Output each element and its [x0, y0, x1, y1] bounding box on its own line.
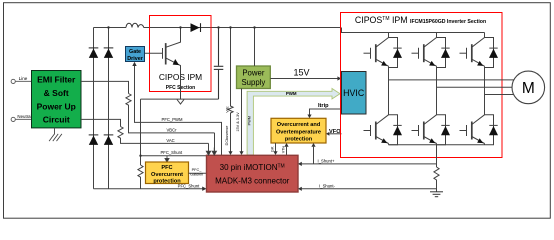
wire emitter rail drop to shunt [436, 145, 438, 167]
wire phase verticals [389, 68, 485, 115]
svg-text:PWM: PWM [247, 116, 251, 125]
terminal Neutral [11, 114, 32, 122]
resistor R4 inverter shunt [434, 167, 439, 192]
wire Ishunt sense up to protection [311, 143, 315, 164]
block HVIC [342, 72, 367, 115]
wire DC+ top rail left section [94, 27, 341, 29]
svg-text:GK: GK [270, 146, 274, 152]
resistor R1 divider A upper [126, 94, 215, 133]
svg-text:Driver: Driver [127, 56, 143, 62]
arrow VBCr into connector [212, 148, 216, 156]
wire 15V to HVIC [270, 67, 341, 80]
svg-text:Power: Power [242, 69, 265, 78]
arrow into gate driver [132, 62, 136, 66]
wire bridge leg A [93, 28, 95, 189]
wire collector stubs top row [389, 33, 485, 38]
svg-text:Itrip: Itrip [318, 103, 329, 109]
svg-text:30 pin iMOTIONTM: 30 pin iMOTIONTM [220, 163, 285, 172]
svg-text:15V: 15V [293, 67, 309, 77]
block Gate Driver [126, 47, 145, 62]
node capacitor top junction [217, 26, 219, 28]
block Overcurrent and Overtemperature protection [271, 118, 326, 143]
block Power Supply [237, 66, 271, 89]
red outline CIPOS IPM inverter section box [341, 13, 503, 158]
svg-text:Supply: Supply [241, 78, 265, 87]
svg-text:VBCr: VBCr [166, 128, 177, 133]
svg-text:Line: Line [19, 76, 28, 81]
svg-text:EMI Filter: EMI Filter [37, 75, 76, 85]
svg-text:VFO: VFO [329, 129, 341, 135]
wire GK protection to connector [270, 143, 277, 155]
wire PFC gatekill to connector [189, 172, 207, 174]
svg-text:protection: protection [285, 137, 313, 143]
wire rail to power supply [254, 28, 256, 67]
resistor R3 PFC shunt [138, 165, 143, 189]
wire Itrip from HVIC to protection [307, 103, 341, 118]
diode D2 bridge top right [104, 48, 114, 58]
svg-text:Gatekill: Gatekill [190, 173, 203, 177]
arrow into connector left [202, 187, 206, 191]
transistor Q3 inverter top phase V [412, 38, 451, 68]
svg-text:PFC: PFC [161, 165, 172, 171]
block 30 pin iMOTION MADK-M3 connector [207, 155, 299, 192]
ground arrow below PFC emitter [177, 100, 184, 105]
transistor Q4 inverter top phase W [460, 38, 499, 68]
arrow VAC into connector [206, 148, 210, 156]
wire phase V to motor [437, 86, 517, 88]
wire bridge leg B [108, 28, 110, 189]
wire I_Shunt+ from shunt to connector [298, 159, 437, 166]
block PFC Overcurrent protection [146, 162, 189, 184]
svg-text:Power Up: Power Up [37, 101, 76, 111]
svg-text:PFC_PWM: PFC_PWM [162, 117, 183, 122]
diode D3 bridge bottom left [89, 135, 99, 145]
block EMI Filter & Soft Power Up Circuit [32, 71, 82, 128]
wire phase U to motor [389, 79, 517, 81]
svg-text:HVIC: HVIC [343, 88, 365, 98]
svg-text:Neutral: Neutral [17, 114, 31, 119]
wire VAC vertical drop [208, 143, 210, 155]
svg-text:Vdc: Vdc [226, 106, 230, 113]
transistor Q7 inverter bottom phase W [460, 115, 499, 145]
node rail-legB junction [107, 26, 109, 28]
wire PFC_PWM from connector to gate driver [135, 66, 222, 155]
node rail power supply junction [253, 26, 255, 28]
wire DC- bottom rail to connector [94, 188, 204, 190]
svg-text:Overcurrent and: Overcurrent and [277, 122, 321, 128]
wire I_Shunt- from shunt bottom to connector [298, 183, 437, 191]
svg-text:PWM: PWM [286, 91, 297, 96]
bus PWM block arrow to HVIC [247, 89, 340, 156]
diode D1 bridge top left [89, 48, 99, 58]
inductor L1 PFC boost choke [126, 23, 144, 27]
svg-text:Overcurrent: Overcurrent [151, 172, 183, 178]
ground below inverter shunt [430, 192, 443, 197]
svg-text:PFC_: PFC_ [192, 168, 203, 172]
label PFC_Gatekill [190, 168, 203, 176]
wire DC- return from PFC shunt node to capacitor [141, 98, 219, 100]
red outline CIPOS IPM PFC section box [150, 16, 212, 92]
svg-text:Overtemperature: Overtemperature [276, 129, 321, 135]
wire Vdc DCbusense line with resistor [225, 26, 233, 155]
svg-text:I_Shunt-: I_Shunt- [319, 183, 335, 188]
svg-text:M: M [522, 80, 535, 97]
svg-text:15V & 3.3V: 15V & 3.3V [236, 112, 240, 132]
diode D5 PFC boost diode [191, 23, 201, 32]
svg-text:VAC: VAC [166, 138, 174, 143]
svg-text:MADK-M3 connector: MADK-M3 connector [215, 177, 290, 186]
node shunt signal junction [139, 155, 141, 157]
transistor Q2 inverter top phase U [364, 38, 403, 68]
diode D4 bridge bottom right [104, 135, 114, 145]
arrow into PFC overcurrent box top [165, 156, 169, 162]
transistor Q5 inverter bottom phase U [364, 115, 403, 145]
svg-text:VTH: VTH [282, 145, 286, 153]
capacitor C1 DC bus [214, 28, 224, 100]
svg-text:Gate: Gate [129, 49, 141, 55]
svg-text:PFC_Shunt: PFC_Shunt [160, 150, 182, 155]
wire VTH connector to protection [282, 143, 289, 155]
svg-text:Circuit: Circuit [43, 115, 70, 125]
svg-text:PFC_Shunt: PFC_Shunt [178, 184, 200, 189]
svg-text:I_Shunt+: I_Shunt+ [318, 159, 335, 164]
wire Line phase to bridge and divider A [81, 81, 129, 93]
svg-text:& Soft: & Soft [44, 88, 69, 98]
wire DC+ rail jog into inverter [342, 28, 485, 33]
wire Neutral to bridge and divider B [81, 119, 121, 126]
svg-text:DCbusense: DCbusense [225, 126, 229, 146]
wire PFC_Shunt signal [141, 155, 207, 157]
ground chassis below EMI block [49, 128, 62, 141]
wire phase W to motor [485, 94, 515, 96]
terminal Line [11, 76, 31, 83]
motor M [512, 71, 545, 104]
wire VFO into protection box [326, 129, 342, 136]
wire PFC shunt vertical [140, 99, 142, 165]
transistor Q6 inverter bottom phase V [412, 115, 451, 145]
node PFC collector junction [179, 26, 181, 28]
resistor R2 divider B [118, 127, 209, 144]
wire DC- bottom rail inverter [389, 144, 485, 146]
transistor Q1 PFC IGBT [145, 28, 181, 100]
wire 15V and 3.3V to connector [236, 89, 244, 156]
wire VBCr vertical drop [214, 133, 216, 155]
